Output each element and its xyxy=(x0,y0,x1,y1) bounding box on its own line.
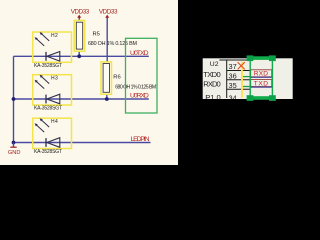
svg-text:U2: U2 xyxy=(210,61,219,68)
resistor R5 xyxy=(74,20,100,51)
ground GND xyxy=(8,143,21,157)
svg-text:34: 34 xyxy=(229,93,237,102)
svg-text:RXD: RXD xyxy=(254,71,268,78)
svg-text:LEDPIN: LEDPIN xyxy=(131,136,150,143)
selection frame (green, around RXD/TXD) xyxy=(247,55,276,100)
net label RXD (boxed) xyxy=(250,70,273,78)
svg-text:H2: H2 xyxy=(51,33,58,39)
highlight cursor line (yellow) xyxy=(241,62,243,98)
wire: H2 row (net U0TXD) xyxy=(14,55,149,57)
pin line 36 xyxy=(227,79,250,81)
svg-text:R6: R6 xyxy=(113,75,120,81)
svg-text:680 OH 1% 0.125 BM: 680 OH 1% 0.125 BM xyxy=(88,41,138,47)
svg-text:RXD0: RXD0 xyxy=(203,80,220,89)
svg-text:KA-3528SGT: KA-3528SGT xyxy=(34,149,62,155)
resistor R6 xyxy=(101,62,121,94)
zoomed pin panel background xyxy=(203,58,293,99)
wire: H4 row (net LEDPIN) xyxy=(14,142,151,144)
svg-text:P1.0: P1.0 xyxy=(205,93,220,102)
node: junction R6/U0RXD xyxy=(105,97,109,101)
svg-text:KA-3528SGT: KA-3528SGT xyxy=(34,106,62,112)
net label TXD (boxed) xyxy=(250,80,273,88)
wire: GND bus vertical xyxy=(13,56,15,142)
power port VDD33 (left) xyxy=(71,9,90,18)
op-amp/IC U2 body edge xyxy=(226,60,228,98)
svg-text:TXD0: TXD0 xyxy=(203,70,220,79)
svg-text:U0TXD: U0TXD xyxy=(130,50,149,57)
svg-text:VDD33: VDD33 xyxy=(71,9,90,16)
schematic sheet background xyxy=(0,0,178,165)
power port VDD33 (right) xyxy=(99,9,118,18)
error marker X xyxy=(238,62,245,69)
wire: VDD33 to R6 xyxy=(106,17,108,62)
svg-text:36: 36 xyxy=(229,71,237,80)
svg-text:35: 35 xyxy=(229,81,237,90)
IC top pin line xyxy=(219,59,250,61)
svg-text:KA-3528SGT: KA-3528SGT xyxy=(34,63,62,69)
svg-text:680 OH 1% 0.125 BM: 680 OH 1% 0.125 BM xyxy=(115,84,156,90)
svg-text:GND: GND xyxy=(8,150,21,156)
wire: pin36 to TXD (green) xyxy=(243,86,251,88)
wire: VDD33 to R5 xyxy=(78,17,80,21)
node: junction bus/H4/GND xyxy=(12,141,16,145)
pin line 37 xyxy=(227,70,250,72)
wire: R5 to U0TXD row xyxy=(78,51,80,57)
svg-text:R5: R5 xyxy=(93,31,100,37)
svg-text:TXD: TXD xyxy=(254,80,268,87)
wire: H3 row (net U0RXD) xyxy=(14,98,149,100)
svg-text:H3: H3 xyxy=(51,76,58,82)
LED H3 xyxy=(33,75,72,105)
node: junction bus/H3 xyxy=(12,97,16,101)
pin line 35 xyxy=(227,88,250,90)
selection box (green, on sheet) xyxy=(126,38,158,113)
wire: R6 to U0RXD row xyxy=(106,94,108,99)
svg-text:37: 37 xyxy=(229,62,237,71)
svg-text:VDD33: VDD33 xyxy=(99,9,118,16)
svg-text:U0RXD: U0RXD xyxy=(130,93,149,100)
wire: pin37 to RXD (green) xyxy=(243,76,251,78)
node: junction R5/U0TXD xyxy=(77,54,81,58)
LED H2 xyxy=(33,32,72,62)
svg-text:H4: H4 xyxy=(51,119,58,125)
LED H4 xyxy=(33,118,72,148)
